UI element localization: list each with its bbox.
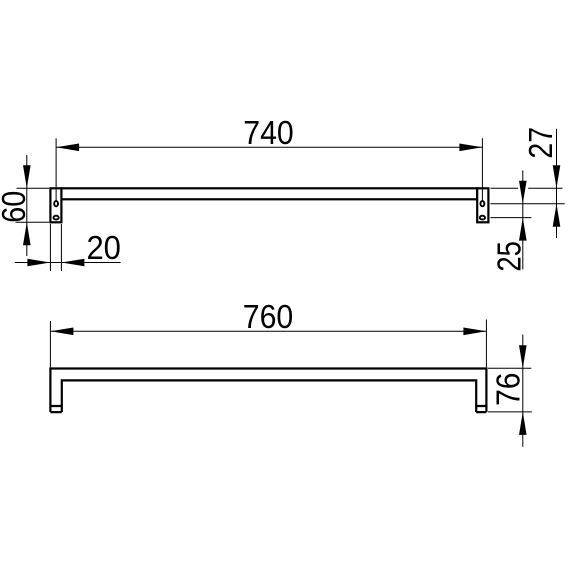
- right bracket lower mounting hole: [480, 216, 485, 220]
- dim 740 dimension line: [56, 146, 482, 148]
- dim 760 dimension line: [50, 330, 486, 332]
- dim 20 extension line left: [49, 224, 51, 271]
- dim 20 arrow left: [27, 259, 50, 267]
- dim 740 arrow right: [459, 144, 482, 152]
- dim 20 arrow right: [61, 259, 84, 267]
- dim 760 arrow right: [463, 328, 486, 336]
- svg-text:27: 27: [523, 127, 560, 159]
- dim 60 extension line top: [17, 187, 50, 189]
- left bracket lower mounting hole: [54, 216, 59, 220]
- towel bar (side view): [61, 188, 477, 199]
- dim 27 dimension line: [556, 129, 558, 238]
- dim 76 extension line bottom: [488, 411, 532, 413]
- dim 76 arrow top: [519, 345, 527, 368]
- dim 760 extension line left: [49, 321, 51, 367]
- left bracket upper mounting hole: [54, 201, 58, 206]
- dim 76 dimension line: [522, 335, 524, 447]
- dim 760 extension line right: [485, 320, 487, 368]
- dim 740 arrow left: [56, 144, 79, 152]
- dim 27 extension line top (bar top, broken at crossing arrow): [490, 187, 518, 189]
- dim 20 extension line right: [60, 224, 62, 271]
- dim 76 arrow bottom: [519, 412, 527, 435]
- svg-text:76: 76: [491, 373, 528, 406]
- svg-text:20: 20: [86, 230, 121, 267]
- towel bar outer profile (plan view): [50, 369, 486, 413]
- dim 27 arrow bottom: [553, 204, 561, 227]
- svg-text:740: 740: [243, 115, 294, 152]
- dim 27 / dim 25 shared extension line (upper hole centre): [490, 203, 564, 205]
- dim 20 dimension line: [15, 262, 121, 264]
- dim 25 arrow bottom: [519, 218, 527, 241]
- dim 60 extension line bottom: [16, 221, 50, 223]
- dim 25 extension line bottom (lower hole centre): [490, 217, 531, 219]
- dim 740 extension line left: [55, 138, 57, 203]
- right foot (wall plate edge): [476, 406, 486, 412]
- dim 76 extension line top: [488, 367, 531, 369]
- towel bar inner profile (plan view): [62, 380, 476, 412]
- right bracket upper mounting hole: [481, 201, 485, 206]
- dim 60 arrow bottom: [23, 222, 31, 245]
- svg-text:25: 25: [492, 241, 529, 272]
- svg-text:60: 60: [0, 191, 33, 223]
- dim 740 extension line right: [481, 138, 483, 203]
- left wall bracket: [50, 188, 61, 222]
- svg-text:760: 760: [243, 299, 294, 336]
- dim 25 dimension line: [522, 170, 524, 269]
- dim 60 arrow top: [23, 165, 31, 188]
- right wall bracket: [477, 188, 488, 222]
- left foot (wall plate edge): [50, 406, 61, 412]
- dim 27 arrow top: [553, 165, 561, 188]
- dim 25 arrow top: [519, 181, 527, 204]
- dim 760 arrow left: [50, 328, 73, 336]
- dim 60 dimension line: [26, 155, 28, 256]
